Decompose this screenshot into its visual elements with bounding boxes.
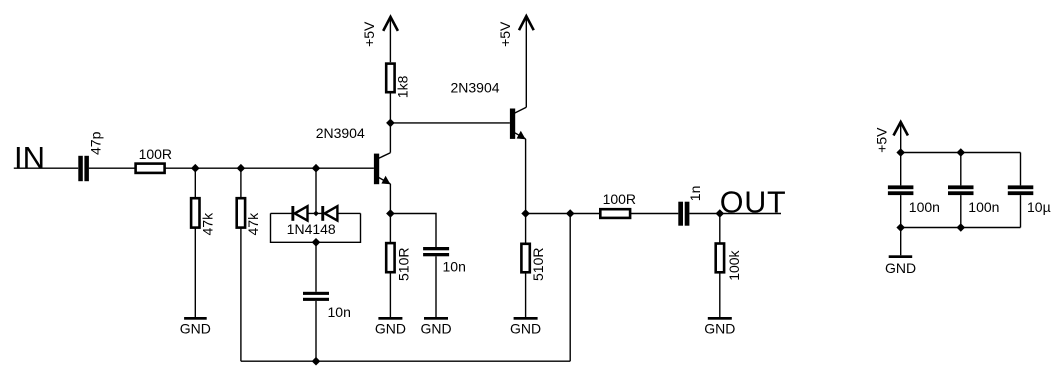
wire output segment with OUT underline (689, 213, 781, 215)
wire diode axis line (271, 212, 361, 214)
wire 1k8 to +5V arrow (389, 17, 391, 62)
wire emitter node to C3 (390, 214, 436, 248)
capacitor C7 10u plates (1008, 185, 1034, 195)
wire Q2 emitter down (525, 139, 527, 243)
svg-text:IN: IN (14, 140, 45, 175)
wire feedback vertical (569, 214, 571, 362)
svg-text:GND: GND (180, 320, 211, 336)
node diode box bottom junction dot (312, 238, 321, 247)
capacitor C6 100n plates (948, 185, 974, 195)
node Q2 emitter junction dot (521, 209, 530, 218)
wire output rail (526, 213, 679, 215)
wire node C down to diode pair (315, 168, 317, 213)
svg-text:2N3904: 2N3904 (451, 80, 500, 96)
transistor Q1 base bar (374, 154, 379, 185)
wire Q1 collector up to 1k8 (389, 94, 391, 153)
transistor Q1 emitter arrow (381, 176, 390, 185)
resistor R1 100R (series input) (136, 164, 165, 173)
wire 47k R2 bottom lead (194, 228, 196, 318)
node top rail junction dot 2 (957, 148, 966, 157)
wire Q2 collector to +5V (525, 16, 527, 107)
capacitor C5 100n plates (888, 185, 914, 195)
wire C7 top lead (1020, 153, 1022, 186)
capacitor C3 10n plates (423, 247, 449, 256)
wire R5 to ground (389, 273, 391, 317)
svg-text:+5V: +5V (873, 127, 889, 153)
svg-text:+5V: +5V (361, 21, 377, 47)
node bottom rail junction dot 1 (896, 223, 905, 232)
node Q1 collector junction dot (386, 119, 395, 128)
transistor Q2 emitter line (515, 133, 526, 139)
wire decoupling bottom rail (901, 227, 1021, 229)
svg-text:1N4148: 1N4148 (287, 221, 336, 237)
transistor Q2 emitter arrow (517, 131, 526, 140)
wire C6 top lead (960, 153, 962, 186)
svg-text:10n: 10n (328, 304, 351, 320)
svg-text:100R: 100R (139, 146, 172, 162)
resistor R7 100R (series output) (600, 209, 630, 218)
svg-text:2N3904: 2N3904 (316, 125, 365, 141)
svg-text:GND: GND (885, 260, 916, 276)
capacitor C4 1n plates (678, 202, 689, 226)
wire Q1 emitter down (389, 184, 391, 243)
svg-text:10µ: 10µ (1027, 199, 1051, 215)
svg-text:GND: GND (375, 320, 406, 336)
node junction dot C (312, 164, 321, 173)
node top rail junction dot 1 (896, 148, 905, 157)
resistor R5 510R (386, 243, 394, 272)
svg-text:47k: 47k (245, 212, 261, 236)
wire 47k R3 top lead (240, 168, 242, 197)
svg-text:510R: 510R (396, 248, 412, 281)
wire feedback bottom rail (241, 360, 570, 362)
svg-text:100R: 100R (603, 191, 636, 207)
wire C3 to ground (435, 256, 437, 317)
wire diode box outline (271, 213, 361, 242)
ground GND4 (510, 317, 541, 336)
wire main input rail (89, 167, 374, 169)
diode D1 1N4148 (291, 206, 307, 221)
resistor R2 47k (191, 198, 199, 227)
power +5V arrow 3 (decoupling block) (894, 122, 908, 136)
transistor Q2 collector line (515, 107, 527, 113)
node feedback rail junction dot (312, 357, 321, 366)
wire 47k R3 bottom lead to feedback rail (240, 228, 242, 362)
wire 47k R2 top lead (194, 168, 196, 197)
resistor R4 1k8 (386, 64, 394, 93)
svg-text:100n: 100n (968, 199, 999, 215)
ground GND2 (375, 317, 406, 336)
node bottom rail junction dot 2 (957, 223, 966, 232)
svg-text:GND: GND (704, 320, 735, 336)
transistor Q1 collector line (379, 153, 391, 159)
svg-text:1n: 1n (687, 186, 703, 202)
ground GND1 (180, 317, 211, 336)
svg-text:OUT: OUT (720, 185, 787, 219)
svg-text:100k: 100k (726, 249, 742, 280)
diode D2 1N4148 (321, 206, 337, 221)
wire +5V arrow shaft to top rail (900, 122, 902, 185)
ground GND3 (420, 317, 451, 336)
resistor R8 100k (716, 244, 724, 273)
wire C5 bottom lead (900, 195, 902, 255)
wire decoupling top rail (901, 152, 1021, 154)
wire Q2 base rail (390, 122, 510, 124)
svg-text:+5V: +5V (497, 21, 513, 47)
ground GND6 (decoupling) (885, 255, 916, 275)
svg-text:10n: 10n (443, 258, 466, 274)
ground GND5 (704, 317, 735, 336)
node Q1 emitter junction dot (386, 209, 395, 218)
wire C7 bottom lead (1020, 195, 1022, 227)
node OUT junction dot (716, 209, 725, 218)
capacitor C1 47p plates (78, 156, 89, 181)
svg-text:47k: 47k (200, 212, 216, 236)
svg-text:510R: 510R (530, 248, 546, 281)
node diode center junction dot (313, 211, 319, 217)
wire R6 to ground (525, 273, 527, 317)
wire diode box to C2 (315, 242, 317, 291)
power +5V arrow 1 (383, 17, 398, 31)
svg-text:1k8: 1k8 (394, 75, 410, 98)
wire OUT node to 100k (719, 214, 721, 243)
node output feedback junction dot (566, 209, 575, 218)
transistor Q2 base bar (510, 109, 515, 139)
resistor R6 510R (521, 244, 529, 272)
wire input left segment (14, 167, 78, 169)
wire C2 to feedback rail (315, 301, 317, 361)
wire R8 to ground (719, 273, 721, 317)
node junction dot A (191, 164, 200, 173)
power +5V arrow 2 (519, 16, 534, 30)
svg-text:GND: GND (510, 320, 541, 336)
resistor R3 47k (feedback) (237, 198, 245, 227)
svg-text:100n: 100n (909, 199, 940, 215)
svg-text:47p: 47p (88, 131, 104, 155)
transistor Q1 emitter line (379, 177, 391, 184)
node junction dot B (237, 164, 246, 173)
wire C6 bottom lead (960, 195, 962, 227)
capacitor C2 10n plates (303, 292, 329, 301)
svg-text:GND: GND (420, 320, 451, 336)
